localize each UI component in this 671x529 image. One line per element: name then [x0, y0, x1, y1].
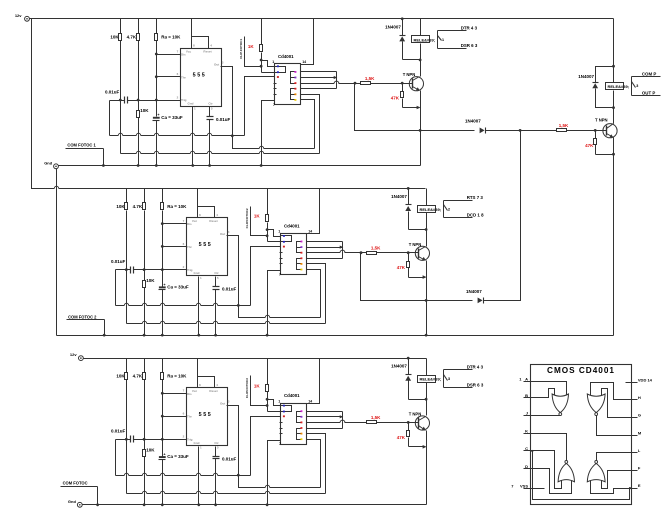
- node rail/diode block1: [401, 17, 404, 20]
- resistor 47K block2: [407, 262, 410, 268]
- node relay K4 bottom: [612, 106, 615, 109]
- wire relay coil column block1: [420, 19, 422, 36]
- arrow 47K to emitter block2: [423, 275, 427, 279]
- resistor 10K block3 column wire: [126, 359, 128, 373]
- diode 1N4007 flyback block1: [400, 35, 406, 37]
- node COM FOTOC 2/gnd: [103, 334, 106, 337]
- svg-text:COM FOTOC 1: COM FOTOC 1: [67, 143, 96, 148]
- svg-text:Cd4001: Cd4001: [284, 393, 300, 398]
- node Ra/Dis block2: [161, 222, 164, 225]
- arrow 47K to emitter block3: [423, 445, 427, 449]
- node relay K4 top: [612, 65, 615, 68]
- wire Trig line block2: [134, 269, 187, 271]
- svg-text:DTR 4 3: DTR 4 3: [467, 365, 484, 370]
- svg-text:RELE&#39;: RELE&#39;: [420, 377, 442, 382]
- svg-text:J: J: [526, 411, 528, 416]
- diode 1N4007 flyback K4: [593, 82, 599, 84]
- svg-text:1,5K: 1,5K: [559, 123, 569, 128]
- transistor Q1 (T NPN): [409, 77, 423, 91]
- gate NOR G4 (bottom-right): [587, 463, 605, 481]
- svg-text:Out: Out: [214, 62, 219, 66]
- wire 555 Out stub and bus O block2: [227, 236, 321, 318]
- relay K2 switch arm: [444, 205, 448, 211]
- wire bus B block3: [127, 493, 326, 495]
- wire IC row1 block3: [307, 411, 343, 413]
- wire Thr line block2: [163, 246, 187, 248]
- wire 1,5K left stub block1: [355, 83, 361, 85]
- resistor 10K block3: [125, 373, 128, 380]
- svg-text:1: 1: [278, 399, 280, 403]
- wire 1,5K to base Q4: [567, 130, 607, 132]
- hops on bus B block2: [142, 323, 146, 324]
- svg-text:14: 14: [308, 230, 312, 234]
- node trig/4.7K block3: [143, 438, 146, 441]
- CMOS left pin stubs and labels: [524, 381, 537, 383]
- hop row3 over tie block2: [340, 252, 345, 253]
- resistor Ra=10K block1: [155, 34, 158, 41]
- svg-text:Gnd: Gnd: [68, 499, 77, 504]
- leader line CLIP FOTOC3: [251, 376, 267, 406]
- wire 1K to IC pin2 block1: [262, 72, 275, 74]
- IC 555 U1 body: [181, 49, 222, 107]
- diode 1N4007 flyback block2: [406, 204, 412, 206]
- svg-text:0.01uF: 0.01uF: [222, 456, 237, 461]
- svg-text:VSS: VSS: [520, 483, 528, 488]
- IC U4 left ticks: [274, 83, 277, 85]
- wire collector up block3: [426, 400, 428, 416]
- wire bus A right riser to IC row3 block2: [251, 247, 281, 306]
- wire K4 collector: [613, 108, 615, 124]
- capacitor Ca=33uF electrolytic block3: [159, 456, 166, 458]
- IC U4 inner left U: [275, 67, 286, 73]
- svg-text:4.7K: 4.7K: [133, 204, 143, 209]
- node base/47K block2: [407, 251, 410, 254]
- wire Ca to gnd block1: [156, 121, 158, 166]
- wire row3 continues block3: [345, 422, 361, 424]
- node base/47K block3: [407, 421, 410, 424]
- svg-text:Out: Out: [220, 232, 225, 236]
- svg-text:0.01uF: 0.01uF: [111, 429, 126, 434]
- IC U5 inner right column lower: [297, 259, 301, 270]
- resistor 47K Q4: [594, 139, 597, 145]
- wire CD4001 pin14 column block1: [301, 19, 314, 65]
- node coil bottom block2: [425, 228, 428, 231]
- svg-text:555: 555: [193, 73, 207, 79]
- svg-text:Vcc: Vcc: [186, 50, 192, 54]
- svg-text:10K: 10K: [146, 448, 155, 453]
- wire 555 Ctr pin stub block1: [209, 107, 211, 117]
- wire Dis line block2: [163, 223, 187, 225]
- svg-text:Gnd: Gnd: [44, 160, 53, 165]
- wire line1 from block1 node down: [355, 84, 475, 131]
- node emitter2 on gnd rail block2: [425, 334, 428, 337]
- svg-text:Thr: Thr: [187, 415, 193, 419]
- svg-text:A: A: [525, 377, 528, 382]
- wire Thr line block3: [163, 416, 187, 418]
- svg-text:Reset: Reset: [209, 389, 217, 393]
- wire 1,5K to base block1: [371, 83, 413, 85]
- resistor 10K block1 column wire: [120, 19, 122, 34]
- resistor 47K block3 wires: [408, 423, 410, 431]
- wire bus A left riser block2: [115, 270, 117, 306]
- relay K1 switch arm: [438, 36, 442, 41]
- node COM FOTOC 1/gnd: [102, 164, 105, 167]
- wire 1K to IC pin2 block2: [268, 241, 281, 243]
- svg-text:0.01uF: 0.01uF: [105, 89, 120, 94]
- wire IC row4 block2: [307, 258, 343, 260]
- node block2 1,5K-left: [360, 251, 363, 254]
- wire bus A block2: [116, 305, 251, 307]
- wire IC row1 block1: [301, 71, 337, 73]
- relay K1 contact bracket: [437, 31, 439, 49]
- svg-text:1K: 1K: [254, 383, 261, 388]
- wire rail1 drop to relay K4: [613, 19, 615, 67]
- hop row3 over tie block1: [334, 83, 339, 84]
- resistor 10K block2: [125, 203, 128, 210]
- svg-text:Thr: Thr: [181, 75, 187, 79]
- svg-text:DTR 4 3: DTR 4 3: [461, 25, 478, 30]
- capacitor 0.01uF coupling block2: [130, 267, 132, 274]
- svg-text:COM FOTOC: COM FOTOC: [63, 481, 88, 486]
- capacitor 0.01uF control block3: [213, 456, 220, 458]
- resistor 1,5K block2: [367, 252, 377, 255]
- wire Dis line block1: [157, 54, 181, 56]
- wire bus A block1: [110, 135, 245, 137]
- resistor 4.7K block3: [143, 373, 146, 380]
- resistor 1K block2: [266, 215, 269, 222]
- wire trig line left segment block3: [116, 439, 131, 441]
- hop block2 rail over gnd vertical: [54, 188, 58, 189]
- diode 1N4007 flyback wires block1: [402, 19, 404, 36]
- wire 1K to IC pin1 step block1: [262, 61, 275, 67]
- wire Vcc column block1: [191, 19, 193, 49]
- node 1K/leader block2: [266, 234, 269, 237]
- wire bus A left riser block3: [115, 440, 117, 476]
- capacitor 0.01uF coupling block3: [130, 436, 132, 443]
- svg-text:G: G: [638, 413, 641, 418]
- arrow at row2 tie block2: [340, 246, 344, 249]
- diode 1N4007 flyback wires block2: [408, 189, 410, 205]
- svg-text:DCD 1 8: DCD 1 8: [467, 213, 484, 218]
- resistor 1,5K right: [557, 129, 567, 132]
- relay coil K3 (RELE'3): [606, 83, 624, 90]
- hop row3 over tie block3: [340, 422, 345, 423]
- svg-text:4.7K: 4.7K: [127, 34, 137, 39]
- node trig/Ra block2: [161, 268, 164, 271]
- node line1/line2 junction: [519, 129, 522, 132]
- resistor 47K block1 wires: [402, 84, 404, 92]
- svg-text:Gnd: Gnd: [194, 441, 200, 445]
- wire bus A left riser block1: [109, 101, 111, 136]
- terminal 12v block1: [25, 16, 30, 21]
- wire line1 after diode: [486, 130, 557, 132]
- node C tie: [531, 450, 533, 452]
- resistor 47K block3: [407, 431, 410, 437]
- svg-text:T NPN: T NPN: [409, 412, 422, 417]
- node rail/diode block2: [407, 187, 410, 190]
- wire gate3 input D loop: [531, 469, 572, 494]
- wire rows tie vertical block3: [342, 412, 344, 429]
- node 1K junction block3: [266, 398, 269, 401]
- gate NOR G2 (top-right): [587, 394, 605, 413]
- svg-text:47K: 47K: [585, 143, 594, 148]
- node trig/Ra block3: [161, 438, 164, 441]
- svg-text:1N4007: 1N4007: [465, 119, 481, 124]
- svg-text:RTS 7 3: RTS 7 3: [467, 195, 484, 200]
- IC U6 inner right column upper: [297, 412, 301, 423]
- node pin7/gnd block1: [260, 164, 263, 167]
- node pin7/gnd block3: [266, 503, 269, 506]
- svg-text:Ca = 33uF: Ca = 33uF: [161, 115, 183, 120]
- wire 555 Ctr pin stub block3: [215, 447, 217, 457]
- svg-text:RELE&#39;: RELE&#39;: [420, 207, 442, 212]
- resistor 4.7K block2 column wire: [144, 189, 146, 203]
- IC U5 inner left U: [281, 236, 292, 242]
- wire control cap to gnd block1: [209, 120, 211, 166]
- wire IC row3 (gate out to base) block2: [307, 252, 341, 254]
- arrow 47K to emitter block1: [417, 106, 421, 110]
- wire CD4001 pin14 column block3: [307, 359, 320, 404]
- hop on bus O block2: [265, 317, 269, 318]
- wire 12v rail block3: [84, 358, 427, 360]
- hops on bus A block1: [118, 135, 122, 136]
- nodes on gnd rail block3: [143, 503, 146, 506]
- relay coil K1 (RELE'1): [412, 36, 430, 43]
- svg-text:Gnd: Gnd: [188, 102, 194, 106]
- wire 555 Out stub and bus O block1: [221, 67, 315, 149]
- IC U5 inner right column upper: [297, 242, 301, 253]
- hops on bus A block2: [124, 305, 128, 306]
- wire row3 continues block2: [345, 252, 361, 254]
- svg-text:12v: 12v: [15, 13, 22, 18]
- leader line CLIP FOTOC1: [245, 37, 261, 67]
- svg-text:47K: 47K: [397, 435, 406, 440]
- hops on bus A block3: [124, 475, 128, 476]
- wire Trig line block1: [128, 100, 181, 102]
- svg-text:1N4007: 1N4007: [391, 194, 407, 199]
- node 47K/emitter Q4: [612, 153, 615, 156]
- svg-text:10K: 10K: [146, 278, 155, 283]
- hop on bus O block1: [259, 148, 263, 149]
- diode 1N4007 D5 on line2: [483, 298, 485, 304]
- wire bus A right riser to IC row3 block3: [251, 417, 281, 476]
- svg-text:47K: 47K: [391, 96, 400, 101]
- IC U6 left ticks: [280, 422, 283, 424]
- CMOS right pin stubs and labels: [626, 382, 638, 384]
- wire rows tie vertical block2: [342, 242, 344, 259]
- IC U4 colored output marks: [294, 71, 296, 73]
- wire bus B left drop block2: [126, 270, 128, 324]
- stub COM FOTOC to gnd rail: [97, 487, 99, 505]
- svg-text:4.7K: 4.7K: [133, 374, 143, 379]
- node out/busA block2: [237, 304, 240, 307]
- svg-text:47K: 47K: [397, 265, 406, 270]
- svg-text:T NPN: T NPN: [409, 242, 422, 247]
- node coil bottom block3: [425, 398, 428, 401]
- relay K3 contact bracket: [631, 77, 633, 96]
- wire IC pin7 to gnd block3: [268, 441, 281, 505]
- svg-text:DSR 6 3: DSR 6 3: [467, 382, 484, 387]
- relay K3 switch arm: [444, 375, 448, 381]
- relay coil K3 (RELE'3): [418, 376, 436, 383]
- wire gate1 output to J: [531, 415, 561, 417]
- wire gate1 input B staircase: [531, 389, 555, 400]
- wire emitter Q4 down to block2 gnd rail: [613, 138, 615, 336]
- node trig/4.7K block2: [143, 268, 146, 271]
- wire Dis line block3: [163, 393, 187, 395]
- resistor 10K block2 column wire: [126, 189, 128, 203]
- node E tie: [629, 487, 631, 489]
- node pin7/gnd block2: [266, 334, 269, 337]
- wire emitter down block3: [426, 431, 428, 505]
- nodes on gnd rail block1: [137, 164, 140, 167]
- svg-text:Vcc: Vcc: [192, 219, 198, 223]
- terminal Gnd block1: [54, 164, 59, 169]
- relay K3 switch arm: [632, 82, 636, 88]
- wire bus B right riser to IC row5 block2: [307, 264, 326, 324]
- svg-text:Dis: Dis: [181, 53, 186, 57]
- IC CD4001 U5 body: [281, 234, 307, 275]
- diode 1N4007 D4 on line1: [485, 128, 487, 134]
- wire bus B block2: [127, 323, 326, 325]
- svg-text:1,5K: 1,5K: [371, 415, 381, 420]
- node out/busA block3: [237, 474, 240, 477]
- IC U5 colored output marks: [300, 241, 302, 243]
- diode 1N4007 flyback wires block3: [408, 359, 410, 375]
- wire IC row2 block2: [307, 247, 343, 249]
- diode 1N4007 flyback block3: [406, 374, 412, 376]
- node 1K junction block1: [260, 59, 263, 62]
- node 1K/leader block1: [260, 65, 263, 68]
- svg-text:E: E: [638, 483, 641, 488]
- wire Trig line block3: [134, 439, 187, 441]
- wire row3 continues block1: [339, 83, 355, 85]
- resistor 1K block3: [266, 385, 269, 392]
- svg-text:10K: 10K: [110, 34, 119, 39]
- hops on bus B block1: [136, 153, 140, 154]
- svg-text:Ca = 33uF: Ca = 33uF: [167, 454, 189, 459]
- transistor Q3 (T NPN): [415, 416, 429, 430]
- svg-text:0.01uF: 0.01uF: [111, 259, 126, 264]
- node Ra/Thr block1: [155, 75, 158, 78]
- resistor 1K column wire block1: [261, 19, 263, 45]
- node 10K/out-net block1: [119, 99, 122, 102]
- svg-text:RELE&#39;: RELE&#39;: [414, 37, 436, 42]
- IC U5 colored input marks: [283, 235, 285, 237]
- svg-text:Vcc: Vcc: [192, 389, 198, 393]
- transistor Q2 (T NPN): [415, 246, 429, 260]
- underline COM FOTOC: [61, 486, 98, 488]
- svg-text:T NPN: T NPN: [403, 72, 416, 77]
- wire 555 Out stub and bus O block3: [227, 406, 321, 488]
- svg-text:Out: Out: [220, 402, 225, 406]
- capacitor 0.01uF control block1: [207, 116, 214, 118]
- svg-text:Dis: Dis: [187, 222, 192, 226]
- IC U5 left ticks: [280, 252, 283, 254]
- underline COM FOTOC 2: [67, 319, 105, 321]
- node rail/diode block3: [407, 357, 410, 360]
- wire gate2 output to M: [597, 416, 632, 436]
- capacitor 0.01uF coupling block1: [124, 97, 126, 104]
- wire relay coil column block3: [426, 359, 428, 376]
- wire IC row4 block3: [307, 428, 343, 430]
- wire gnd vertical from Gnd terminal to block2 gnd rail: [56, 169, 58, 336]
- hop on bus O block3: [265, 487, 269, 488]
- wire relay coil column block2: [426, 189, 428, 206]
- wire IC row1 block2: [307, 241, 343, 243]
- wire emitter down block1: [420, 91, 422, 166]
- wire line1 to 1,5K right stub: [556, 130, 558, 132]
- wire line2 from block2 node down: [361, 253, 473, 301]
- wire gate3 output to K: [531, 434, 567, 461]
- svg-text:1,5K: 1,5K: [371, 246, 381, 251]
- svg-text:1: 1: [278, 230, 280, 234]
- node 1K junction block2: [266, 228, 269, 231]
- wire 1K to IC pin2 block3: [268, 411, 281, 413]
- resistor Ra=10K block3: [161, 373, 164, 380]
- svg-text:CLIP.FOTOC2: CLIP.FOTOC2: [245, 208, 249, 228]
- wire trig line left segment block2: [116, 269, 131, 271]
- svg-text:OUT P: OUT P: [642, 90, 655, 95]
- wire IC row3 (gate out to base) block1: [301, 83, 335, 85]
- svg-text:7: 7: [279, 442, 281, 446]
- svg-text:Thr: Thr: [187, 245, 193, 249]
- svg-text:7: 7: [279, 272, 281, 276]
- wire line2 after diode to riser: [484, 131, 521, 301]
- svg-text:Gnd: Gnd: [194, 271, 200, 275]
- IC CD4001 U6 body: [281, 404, 307, 445]
- wire bus A block3: [116, 475, 251, 477]
- svg-text:Trig: Trig: [181, 98, 187, 102]
- node trig/4.7K block1: [137, 99, 140, 102]
- wire gnd rail block1: [59, 165, 421, 167]
- relay coil K2 (RELE'2): [418, 206, 436, 213]
- capacitor Ca=33uF electrolytic block2: [159, 286, 166, 288]
- svg-text:Reset: Reset: [209, 219, 217, 223]
- resistor 10K block1: [119, 34, 122, 41]
- svg-text:CLIP.FOTOC3: CLIP.FOTOC3: [245, 378, 249, 398]
- wire bus B block1: [121, 153, 320, 155]
- wire 12v rail block1: [30, 18, 614, 20]
- node Ra/Thr block2: [161, 245, 164, 248]
- resistor 1K column wire block3: [267, 359, 269, 385]
- node trig/Ra block1: [155, 99, 158, 102]
- terminal 12v block3: [79, 356, 84, 361]
- leader line CLIP FOTOC2: [251, 207, 267, 236]
- svg-text:14: 14: [302, 60, 306, 64]
- wire trig line left segment block1: [110, 100, 125, 102]
- relay K3 contact bracket: [443, 370, 445, 388]
- svg-text:C: C: [525, 446, 528, 451]
- wire IC row4 block1: [301, 88, 337, 90]
- arrow at row2 tie block3: [340, 415, 344, 418]
- svg-text:CMOS CD4001: CMOS CD4001: [547, 366, 615, 375]
- wire control cap to gnd block2: [215, 290, 217, 336]
- node base/47K block1: [401, 82, 404, 85]
- wire collector up block2: [426, 230, 428, 247]
- IC U4 inner right column upper: [291, 72, 295, 84]
- resistor Ra block2 column wire: [162, 189, 164, 203]
- resistor 47K block2 wires: [408, 253, 410, 262]
- stub COM FOTOC 2 to gnd rail: [104, 320, 106, 336]
- resistor Ra block3 column wire: [162, 359, 164, 373]
- svg-text:1K: 1K: [254, 214, 261, 219]
- capacitor 0.01uF control block2: [213, 286, 220, 288]
- wire 555 Gnd pin to rail block2: [198, 277, 200, 336]
- IC U6 inner left U: [281, 406, 292, 412]
- svg-text:7: 7: [273, 103, 275, 107]
- wire 1K to IC pin1 step block3: [268, 400, 281, 406]
